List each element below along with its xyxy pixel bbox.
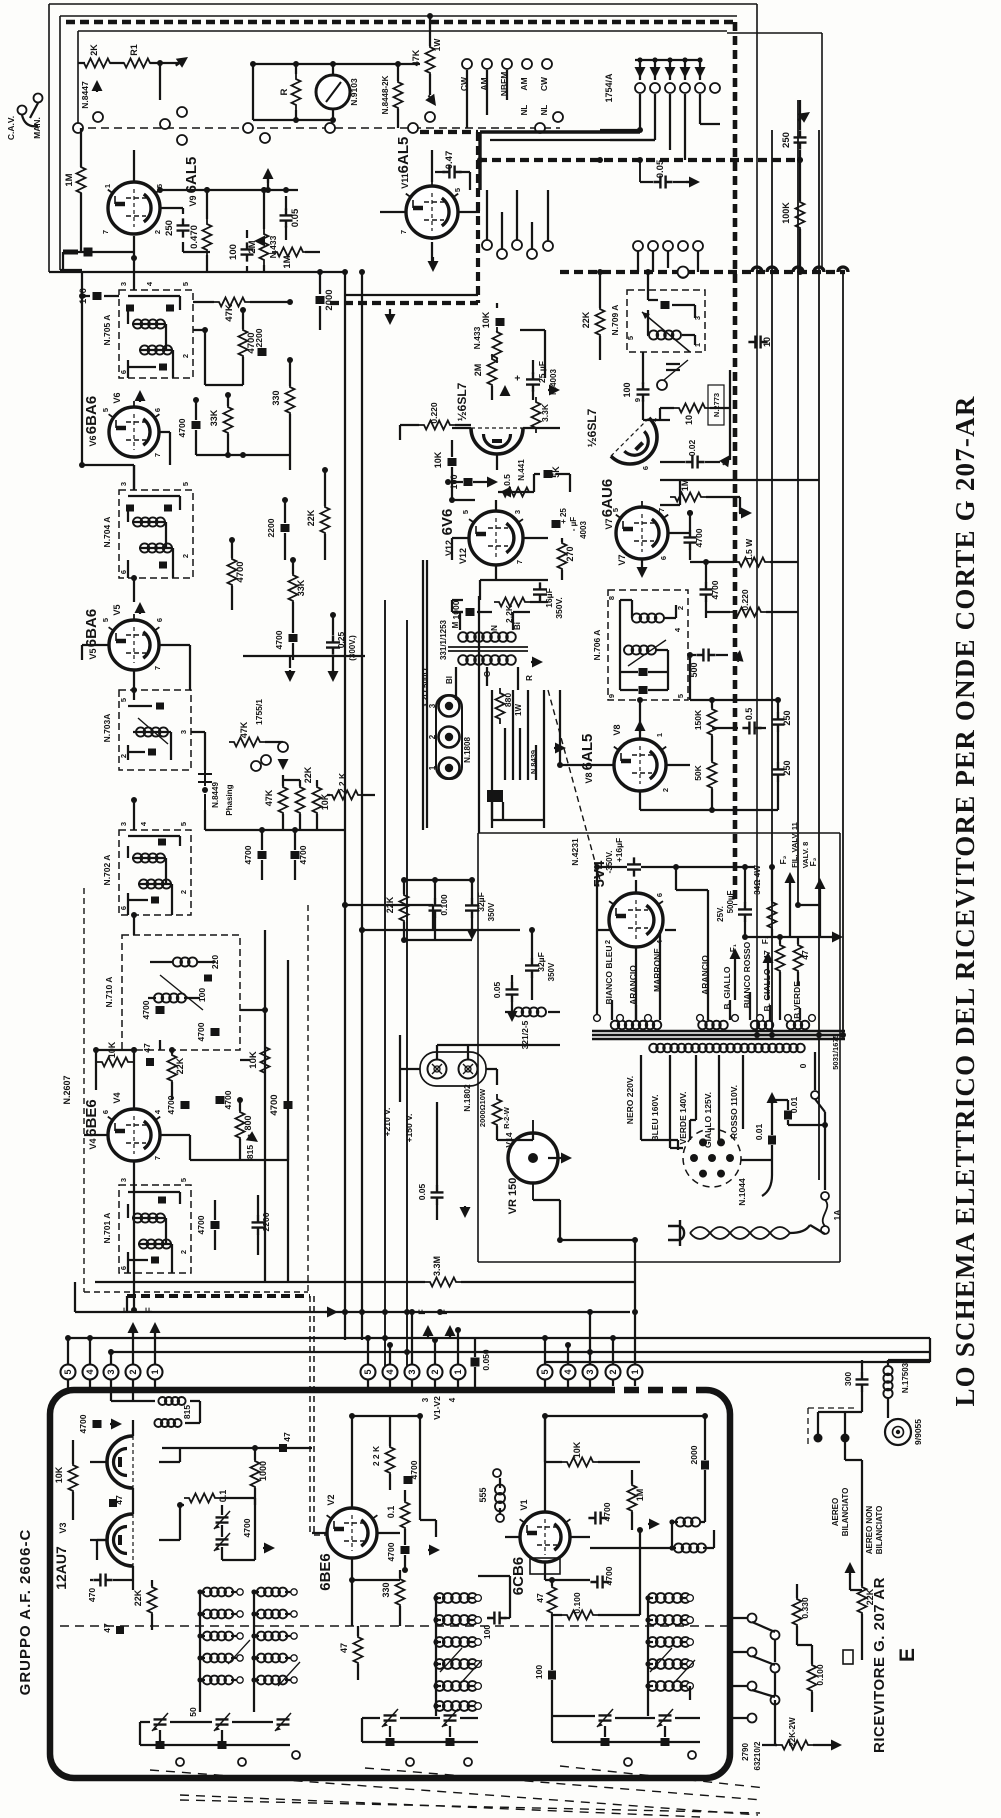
svg-text:+ 25: + 25 [559,508,568,524]
fuse 1A [821,1192,829,1200]
svg-text:V8: V8 [584,772,594,783]
svg-text:5: 5 [119,698,128,702]
svg-text:0.100: 0.100 [572,1592,582,1614]
svg-text:F: F [417,1309,427,1315]
svg-text:32µF: 32µF [476,892,486,912]
svg-text:22K: 22K [175,1057,185,1074]
capacitor 2000 [316,296,325,304]
svg-text:BILANCIATO: BILANCIATO [841,1488,850,1537]
svg-text:V1-V2: V1-V2 [432,1396,442,1420]
resistor 22K r [596,304,605,340]
svg-text:4700: 4700 [243,845,253,864]
coil bank1b row [257,1588,287,1597]
svg-text:6: 6 [153,408,162,412]
resistor 47K ph [279,782,288,818]
svg-text:555: 555 [478,1487,488,1502]
transformer primary coil [649,1044,805,1053]
svg-text:N.709 A: N.709 A [610,305,620,336]
svg-text:0.100: 0.100 [439,894,449,916]
IF transformer N.709A [627,290,705,352]
svg-text:1W: 1W [514,704,523,716]
svg-text:32µF: 32µF [536,952,546,972]
svg-text:N.706 A: N.706 A [592,630,602,661]
svg-text:16µF: 16µF [544,588,554,608]
svg-text:LO SCHEMA ELETTRICO DEL RICEVI: LO SCHEMA ELETTRICO DEL RICEVITORE PER O… [950,395,980,1406]
capacitor 47 v3 [109,1499,117,1507]
resistor 47 v1 [548,1582,557,1618]
tube V11 wires [380,150,480,262]
svg-text:1: 1 [103,184,112,188]
svg-text:22K: 22K [385,896,395,913]
svg-text:3: 3 [585,1369,595,1374]
svg-text:MAN.: MAN. [32,117,42,139]
svg-text:6CB6: 6CB6 [510,1557,527,1595]
svg-text:1M: 1M [282,255,293,268]
wire osc verticals [265,930,288,1282]
svg-text:1A: 1A [832,1210,842,1221]
resistor 1.5W [734,558,770,567]
terminal 2 [126,1365,141,1380]
svg-text:N.433: N.433 [268,235,278,258]
coil bank1 row [203,1654,233,1663]
capacitor 2000 v1 [701,1461,709,1470]
terminal 1 [628,1365,643,1380]
wires v11 switch [487,190,548,249]
gang dashed line [75,127,560,129]
wire bus y656 [243,656,365,668]
svg-text:7: 7 [153,666,162,670]
trimmer capacitor [659,1715,672,1720]
trimmer capacitor [277,1719,290,1724]
GRUPPO AF box [50,1390,730,1778]
wire left col [82,272,134,490]
svg-text:5: 5 [101,408,110,412]
resistor 800 v4 [236,1107,245,1143]
svg-text:V7: V7 [604,518,614,529]
wires right caps [640,655,778,810]
wires 1754 down [600,94,720,160]
svg-text:47: 47 [535,1593,545,1603]
capacitor 4700 n702b [291,851,300,859]
svg-text:Bi: Bi [513,622,522,630]
svg-text:CW: CW [539,76,549,91]
svg-text:100: 100 [197,988,207,1002]
svg-text:AEREO: AEREO [831,1498,840,1526]
coil bank1b row [257,1610,287,1619]
svg-text:47K: 47K [224,304,235,322]
capacitor 250 b [772,762,785,781]
resistor 2M pot [488,354,497,390]
coil bank2 row [435,1637,478,1647]
svg-text:2000: 2000 [324,289,335,310]
svg-text:12AU7: 12AU7 [53,1546,69,1590]
resistor 0.05 b [345,1312,362,1340]
trimmer sel [843,1650,853,1664]
resistor 1M [272,248,308,257]
svg-text:6BA6: 6BA6 [83,396,100,434]
svg-text:N.1808: N.1808 [463,737,472,763]
arrow ant [849,1573,851,1575]
IF transformer N.703A [119,690,191,770]
switch contact [160,119,170,129]
capacitor 4700 r1 [684,530,697,549]
switch contact [408,123,418,133]
resistor 2M [260,229,269,265]
svg-text:5: 5 [363,1369,373,1374]
svg-text:Bl: Bl [445,676,454,684]
capacitor 25uF N.4003 [526,372,540,391]
svg-text:1M: 1M [680,479,690,492]
coil bank3 row [648,1681,691,1691]
capacitor 0.100 [429,898,442,917]
capacitor 4700 v5 [289,634,298,642]
svg-text:NL: NL [520,105,529,116]
coil bank1b row [257,1632,287,1641]
svg-text:6AL5: 6AL5 [395,137,412,174]
capacitor 2200 n701 [252,1215,265,1234]
svg-text:4700: 4700 [141,1000,151,1019]
trimmer capacitor [444,1715,457,1720]
svg-text:22K-2W: 22K-2W [788,1717,797,1747]
svg-text:5: 5 [181,482,190,486]
wire if bus [160,330,205,465]
resistor R [292,74,301,110]
svg-text:330: 330 [381,1582,391,1597]
wire phasing [191,732,375,830]
svg-text:4: 4 [385,1369,395,1374]
thick dash right top [420,132,800,303]
capacitor 0.5 r [742,722,761,735]
resistor 0.330 [793,1594,802,1630]
coil bank2 row [435,1681,478,1691]
svg-text:BILANCIATO: BILANCIATO [875,1506,884,1555]
svg-text:AEREO NON: AEREO NON [865,1506,874,1555]
wire cav [22,103,38,126]
svg-text:NERO 220V.: NERO 220V. [625,1076,635,1124]
svg-text:V6: V6 [88,435,98,446]
resistor 1M [77,162,86,198]
transformer wires up [612,890,800,1020]
svg-text:880: 880 [503,693,513,707]
transformer secondary coils [611,1021,662,1030]
terminal 4 [561,1365,576,1380]
svg-text:33K: 33K [296,579,306,596]
svg-text:2: 2 [179,1250,188,1254]
capacitor 0.02 [685,456,704,469]
svg-text:N.4231: N.4231 [570,838,580,866]
svg-text:100: 100 [482,1625,492,1639]
arrow F1 a [734,958,736,960]
dash bus mid [330,301,478,305]
wires v2 [312,1416,400,1680]
svg-text:7: 7 [153,453,162,457]
trimmer arrow n709 [642,312,690,352]
svg-text:V6: V6 [112,392,122,403]
terminal 3 [405,1365,420,1380]
svg-text:100K: 100K [781,202,791,224]
capacitor 0.05 [280,208,293,227]
wires v1 [505,1416,590,1580]
cord ends [762,1160,825,1234]
svg-text:V8: V8 [612,724,622,735]
tube 6BE6 [108,1103,160,1161]
svg-text:33K: 33K [209,409,219,426]
resistor 1M r [670,493,706,502]
antenna coil a [676,1517,700,1526]
svg-text:6BE6: 6BE6 [317,1553,334,1591]
IF transformer N.710A [122,935,240,1050]
resistor 22K v4 [168,1050,177,1086]
svg-text:2 2 K: 2 2 K [371,1445,381,1466]
resistor 3.3M [360,1281,635,1283]
svg-text:5031/1675: 5031/1675 [831,1034,840,1069]
svg-text:RICEVITORE G. 207 AR: RICEVITORE G. 207 AR [871,1577,888,1753]
voltage selector socket N.1044 [683,1129,741,1187]
svg-text:0.220: 0.220 [740,589,750,611]
svg-text:Phasing: Phasing [225,784,234,815]
switch contact [177,135,187,145]
tube 6AL5 [108,176,160,234]
svg-text:0.05: 0.05 [492,981,502,998]
svg-text:47: 47 [800,950,810,960]
primary taps [641,1052,815,1148]
trimmer capacitor [384,1715,397,1720]
svg-text:+: + [513,375,524,381]
resistor 4700 [239,325,248,361]
terminal 3 [583,1365,598,1380]
capacitor 25uF 4003 b [552,520,561,528]
wire hops y272 [752,267,762,272]
svg-text:6BE6: 6BE6 [83,1099,100,1137]
tube V3 12AU7 upper half [107,1436,133,1488]
right rails vertical [772,100,843,1180]
wires v4 [84,1050,240,1310]
wires vr150 [497,1133,560,1200]
coil bank1b row [257,1676,287,1685]
transformer core [592,1031,845,1039]
svg-text:V4: V4 [88,1138,98,1149]
tube 6BA6 [109,614,160,670]
svg-text:1: 1 [655,733,664,737]
svg-text:V7: V7 [617,554,627,565]
svg-text:F: F [144,1307,154,1313]
resistor 22K v2 [386,1442,395,1478]
svg-text:2: 2 [153,230,162,234]
svg-text:3: 3 [119,1178,128,1182]
svg-text:6: 6 [659,556,668,560]
svg-text:3: 3 [513,510,522,514]
resistor 22K choke [148,1582,157,1618]
wires mid right [643,352,730,460]
svg-text:4700: 4700 [602,1502,612,1521]
wires term down [68,1380,635,1390]
svg-text:5: 5 [540,1369,550,1374]
arrow bus end [325,1311,327,1313]
svg-text:N.705 A: N.705 A [102,315,112,346]
svg-text:10: 10 [684,415,694,425]
wires 6au6 top [660,480,819,505]
svg-text:ROSSO 110V.: ROSSO 110V. [729,1085,739,1139]
svg-text:0.470: 0.470 [189,225,200,249]
antenna switch circles [748,1614,757,1623]
wires ant [845,1338,930,1419]
svg-text:0.100: 0.100 [815,1664,825,1686]
wire verticals x423 [423,560,479,833]
capacitor 10K mid [448,458,457,466]
resistor 2.2K ph [327,791,363,800]
capacitor 16uF 350V main [627,857,641,876]
capacitor 0.01 a [784,1111,792,1120]
svg-text:V5: V5 [88,648,98,659]
svg-text:6: 6 [119,1266,128,1270]
svg-text:2M: 2M [473,364,483,377]
svg-text:4700: 4700 [710,580,720,599]
tube 6AU6 [616,501,668,559]
wire ht [597,867,755,1020]
coil bank1 row [203,1610,233,1619]
svg-text:F₂: F₂ [778,855,788,864]
junction dots extra [342,1309,348,1315]
svg-text:N.2773: N.2773 [712,393,721,417]
svg-text:AM: AM [519,77,529,90]
wires v5 [82,578,190,690]
resistor 47 g [776,940,785,976]
wires n702 [128,800,180,915]
svg-text:350V.: 350V. [554,597,564,618]
svg-text:4700: 4700 [196,1215,206,1234]
arrow ps mid [471,928,473,929]
wires 5v4 [597,880,676,1020]
arrows F filament [132,1333,134,1334]
svg-text:25V.: 25V. [716,906,725,922]
coil bank2 row [435,1615,478,1625]
svg-text:V11: V11 [400,173,410,189]
coil bank1 row [203,1676,233,1685]
svg-text:5: 5 [626,336,635,340]
svg-text:0.330: 0.330 [800,1597,810,1619]
capacitor 500uF 25V [738,902,752,921]
switch contact [243,123,253,133]
resistor 0.470 [203,219,212,255]
resistor 22K ph [296,782,305,818]
svg-text:5: 5 [181,282,190,286]
resistor 1M v1 [628,1480,637,1516]
wire antenna feed long [545,1360,930,1362]
svg-text:0.05: 0.05 [655,159,666,178]
capacitor 47 v4 [146,1058,154,1066]
resistor 0.220 r [730,608,766,617]
capacitor 100 [241,242,254,261]
arrow F2 a [789,883,791,884]
IF transformer N.701A [119,1185,191,1273]
capacitor 32uF b [525,958,539,977]
terminal 4 [83,1365,98,1380]
resistor 2.2K 6v6 [494,598,530,607]
svg-text:1M: 1M [64,173,75,186]
capacitor 4700 v2 [404,1476,413,1484]
svg-text:1000: 1000 [258,1461,268,1481]
svg-text:- µF: - µF [569,517,578,531]
svg-text:1755/1: 1755/1 [254,699,264,725]
svg-text:4700: 4700 [242,1518,252,1537]
svg-text:5: 5 [461,510,470,514]
svg-text:47: 47 [102,1623,112,1633]
IF transformer N.706A [608,590,688,700]
svg-text:815: 815 [245,1145,255,1159]
dashed gang line grupo [60,1625,728,1627]
mode CW [462,59,472,69]
capacitor 16uF 350V [533,582,547,601]
wire v2 top [352,1416,420,1460]
half tube 6SL7 b [611,418,668,475]
svg-text:300: 300 [843,1372,853,1386]
switch circles v11 area [482,240,492,250]
capacitor 2200 [258,348,267,356]
wires n706 [620,600,676,690]
svg-text:10K: 10K [572,1441,582,1458]
svg-text:4: 4 [563,1369,573,1374]
svg-text:N.441: N.441 [517,459,526,481]
svg-text:63210/2: 63210/2 [753,1741,762,1770]
svg-text:2000Ω10W: 2000Ω10W [478,1088,487,1127]
resistor 22K 2W [777,1741,813,1750]
svg-text:V3: V3 [58,1522,68,1533]
terminal 4 [383,1365,398,1380]
svg-text:350V: 350V [487,902,496,921]
coil N705 primary [133,319,165,328]
dash bus grupo top [127,1294,310,1298]
resistor 33K [224,402,233,438]
switch contact [553,112,563,122]
coil 555 [495,1485,505,1512]
svg-text:4700: 4700 [166,1095,176,1114]
svg-text:34Ω 4W: 34Ω 4W [753,865,762,895]
svg-text:2: 2 [428,734,437,739]
wire y295 [345,272,478,295]
resistor 880 1W [496,688,505,724]
wire y455 [196,440,290,470]
svg-text:1: 1 [453,1369,463,1374]
svg-text:100: 100 [534,1665,544,1679]
resistor 330 [286,382,295,418]
svg-text:V12: V12 [458,548,468,564]
svg-text:0.050: 0.050 [481,1349,491,1371]
svg-text:4700: 4700 [298,845,308,864]
svg-text:1M: 1M [635,1489,645,1502]
svg-text:4700: 4700 [274,630,284,649]
svg-text:4700: 4700 [409,1460,419,1479]
svg-text:0.05: 0.05 [290,208,301,227]
tube 6BA6 [109,401,160,457]
svg-text:9/9055: 9/9055 [913,1419,923,1445]
wire bundle down [492,690,544,780]
junction dots [250,61,256,67]
svg-text:4700: 4700 [223,1090,233,1109]
svg-text:2: 2 [179,890,188,894]
tube 6AL5 [406,180,458,238]
svg-text:N.1044: N.1044 [737,1178,747,1206]
arrow 47k [429,95,430,97]
capacitor 4700 osc2 [211,1028,220,1036]
resistor 100K [796,197,805,233]
svg-text:2: 2 [603,940,612,944]
resistor 0.5 N.441 [498,488,534,497]
wires 815 [111,1390,200,1423]
svg-text:4700: 4700 [386,1542,396,1561]
coil N.17503 [883,1366,892,1398]
svg-text:6: 6 [655,893,664,897]
svg-text:100: 100 [228,244,239,260]
